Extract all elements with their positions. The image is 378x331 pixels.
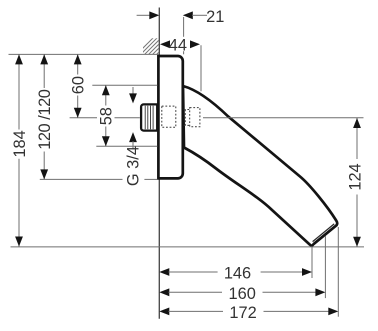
dimension 124 [347,118,365,247]
label G 3/4 with pointers [125,87,143,186]
extension line arm root bottom (58) [96,145,157,147]
svg-text:60: 60 [70,76,88,94]
centerline right segment [203,117,364,119]
extension line 172 (spout top corner) [337,227,339,317]
dimension 44 [160,37,200,55]
hidden nut behind arm root (dashed) [190,108,200,127]
dimension 160 [159,285,325,303]
svg-text:58: 58 [98,107,116,125]
floor reference line [11,246,365,248]
svg-text:21: 21 [206,8,224,26]
spout outlet inner rim [313,224,335,242]
hidden bore step (dashed) [184,110,190,126]
extension line 21 (plate front) [183,17,185,37]
extension line plate bottom (gap for G3/4 text) [40,178,123,180]
spout arm [183,86,337,246]
wall line [158,8,160,319]
svg-text:146: 146 [224,264,251,282]
dimension 120/120 [36,54,54,179]
dimension 21 [137,8,225,26]
svg-text:160: 160 [229,285,256,303]
extension line 160 (outlet mid) [324,236,326,298]
hidden union inside plate (dashed) [162,106,176,127]
extension line 21 lower stub [183,51,185,54]
svg-text:44: 44 [169,37,187,55]
nipple thread hatch [145,106,153,129]
svg-text:G 3/4: G 3/4 [125,146,143,186]
svg-text:172: 172 [229,304,256,322]
extension line 146 (spout bottom corner) [311,247,313,278]
escutcheon plate [158,56,182,178]
extension line plate top [9,53,159,55]
centerline left of nipple [70,117,97,119]
dimension 60 [70,54,88,117]
extension line 44 (to arm) [200,45,202,91]
extension line arm root top (58) [92,84,157,86]
svg-text:120 /120: 120 /120 [36,89,54,150]
G 3/4 nipple [141,104,157,130]
dimension 184 [11,54,29,246]
dimension 58 [98,85,116,146]
svg-text:184: 184 [11,130,29,157]
svg-text:124: 124 [347,163,365,190]
dimension 172 [159,304,338,322]
dimension 146 [159,264,312,282]
